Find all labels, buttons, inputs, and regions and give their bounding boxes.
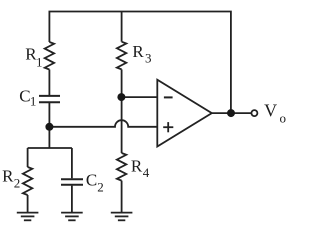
svg-text:R: R xyxy=(132,42,144,61)
svg-text:C: C xyxy=(19,87,30,106)
svg-text:R: R xyxy=(131,156,143,175)
svg-text:2: 2 xyxy=(14,175,20,190)
svg-text:3: 3 xyxy=(145,50,152,65)
svg-text:V: V xyxy=(264,101,277,121)
svg-text:C: C xyxy=(86,171,97,190)
svg-text:R: R xyxy=(2,166,14,185)
svg-text:o: o xyxy=(280,110,287,125)
svg-text:4: 4 xyxy=(143,165,150,180)
svg-text:1: 1 xyxy=(30,94,37,109)
svg-text:1: 1 xyxy=(36,55,43,70)
svg-text:2: 2 xyxy=(97,179,104,194)
